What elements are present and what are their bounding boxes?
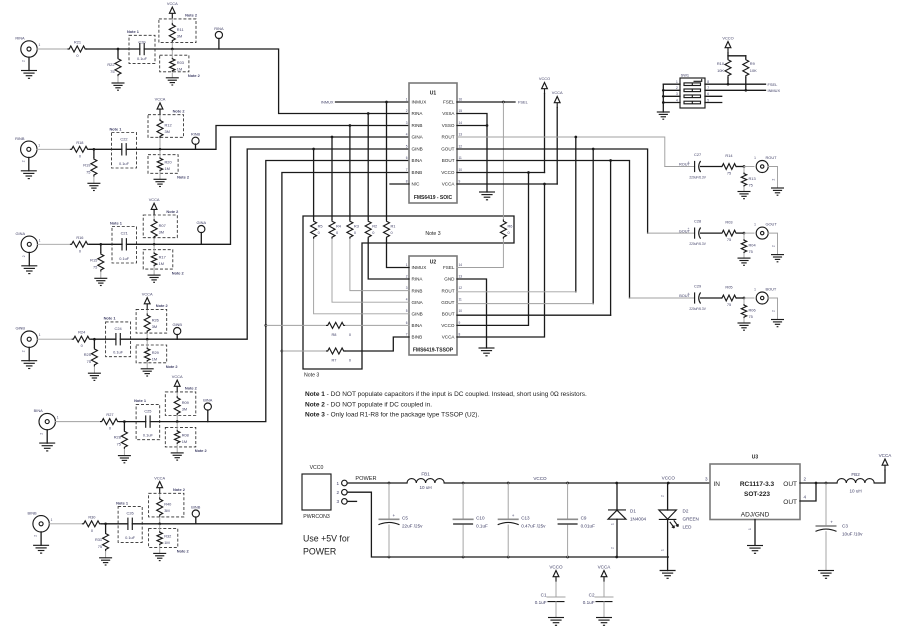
power symbol VCCA (U1) — [457, 90, 563, 184]
resistor R6 0 (FSEL to U2, Note 3) — [457, 102, 512, 268]
wire BNC to series resistor — [55, 421, 100, 423]
svg-text:N/C: N/C — [412, 182, 421, 187]
inductor FB2 10uH — [837, 472, 874, 494]
resistor R10 10K (FSEL pull-up) — [717, 58, 731, 86]
svg-text:VCCA: VCCA — [442, 335, 456, 340]
svg-text:3: 3 — [406, 121, 408, 125]
wire BNC to series resistor — [37, 48, 67, 50]
svg-text:R5: R5 — [318, 224, 323, 229]
net VCCO rail — [444, 476, 710, 485]
node junction — [93, 338, 96, 341]
svg-text:1: 1 — [754, 223, 756, 227]
ground (under R17) — [148, 275, 161, 282]
svg-text:R26: R26 — [152, 317, 159, 322]
stub SW1 pin6 — [705, 95, 722, 97]
resistor R13 75 (shunt) — [743, 167, 745, 173]
svg-text:R28: R28 — [114, 435, 121, 440]
svg-text:C26: C26 — [127, 511, 134, 516]
wire resistor to coupling cap — [101, 523, 128, 525]
svg-text:1: 1 — [39, 238, 41, 242]
svg-text:RINB: RINB — [191, 132, 201, 137]
svg-text:2: 2 — [406, 274, 408, 278]
svg-text:VCCO: VCCO — [662, 476, 676, 481]
pin 8 N/C stub — [390, 183, 409, 185]
wire BNC to series resistor — [38, 243, 70, 245]
svg-text:VCCA: VCCA — [154, 475, 165, 480]
ground (BNC shield) — [28, 57, 30, 70]
svg-text:3M: 3M — [164, 508, 169, 513]
op-amp U2 FMS6419-TSSOP — [406, 256, 463, 355]
capacitor C9 0.01uF — [557, 483, 595, 557]
svg-text:GOUT: GOUT — [441, 147, 454, 152]
svg-text:R15: R15 — [90, 257, 97, 262]
svg-text:ROUT: ROUT — [441, 135, 454, 140]
svg-text:VCCA: VCCA — [167, 1, 178, 6]
svg-text:C1: C1 — [541, 592, 547, 597]
svg-text:+: + — [688, 161, 690, 165]
node terminal RINA — [218, 38, 220, 49]
ground (BNC shield) — [28, 347, 30, 360]
svg-text:Note 1 - DO NOT populate capac: Note 1 - DO NOT populate capacitors if t… — [305, 391, 587, 398]
svg-text:RINB: RINB — [412, 288, 423, 293]
ground (under R15) — [94, 278, 107, 285]
ground (under R32) — [153, 553, 166, 560]
svg-text:VCCO: VCCO — [722, 36, 733, 41]
svg-text:VSSA: VSSA — [442, 111, 455, 116]
wire BNC to series resistor — [49, 523, 82, 525]
svg-text:3M: 3M — [182, 406, 187, 411]
svg-text:Note 2: Note 2 — [195, 448, 208, 453]
svg-text:10K: 10K — [717, 68, 724, 73]
svg-text:LED: LED — [683, 525, 693, 530]
svg-text:R4: R4 — [336, 224, 342, 229]
svg-text:Note 2: Note 2 — [156, 303, 169, 308]
input stage BINA — [34, 161, 409, 463]
svg-text:FSEL: FSEL — [768, 82, 779, 87]
svg-text:GINB: GINB — [15, 326, 25, 331]
svg-text:VCCA: VCCA — [879, 453, 893, 458]
svg-text:1M: 1M — [165, 166, 170, 171]
svg-text:75: 75 — [749, 314, 753, 319]
wire BINA to U1 — [150, 161, 409, 422]
wire U3 OUT pins — [800, 482, 837, 501]
svg-text:RC1117-3.3: RC1117-3.3 — [740, 481, 775, 488]
svg-text:R16: R16 — [76, 235, 83, 240]
svg-text:BINB: BINB — [191, 504, 200, 509]
resistor R2 0 (Note 3 link) — [365, 112, 409, 279]
ground (BNC shield) — [46, 430, 48, 443]
wire VCCO to U2 pin9 — [457, 171, 530, 325]
svg-text:1: 1 — [57, 416, 59, 420]
ground (under R04) — [738, 258, 751, 265]
capacitor C26 0.1uF (Note 1 dashed box) — [118, 507, 142, 543]
resistor R18 0 (series) — [70, 146, 89, 152]
svg-text:7: 7 — [707, 86, 709, 90]
input stage GINB — [15, 149, 409, 380]
svg-text:R22: R22 — [107, 62, 114, 67]
node terminal GINB — [176, 335, 178, 340]
resistor R20 1M (pull-down, Note 2 dashed box) — [148, 155, 178, 174]
svg-text:INMUX: INMUX — [768, 88, 781, 93]
svg-text:R10: R10 — [717, 61, 725, 66]
svg-text:Note 3: Note 3 — [425, 231, 440, 237]
svg-text:10 uH: 10 uH — [419, 485, 431, 490]
svg-text:R8: R8 — [332, 332, 337, 337]
svg-text:5: 5 — [707, 98, 709, 102]
svg-text:POWER: POWER — [303, 547, 336, 557]
svg-text:0.1uF: 0.1uF — [119, 256, 130, 261]
node junction — [117, 48, 120, 51]
svg-text:GINB: GINB — [412, 147, 423, 152]
svg-text:GINA: GINA — [197, 220, 207, 225]
wire U3 ADJ/GND to ground — [747, 520, 763, 554]
ground (BNC shield) — [768, 167, 777, 189]
ground (BNC shield) — [768, 298, 777, 320]
svg-text:75: 75 — [727, 171, 731, 176]
svg-text:Note 2: Note 2 — [185, 386, 198, 391]
svg-text:Note 1: Note 1 — [110, 220, 123, 225]
wire BNC to series resistor — [37, 338, 71, 340]
node junction — [123, 420, 126, 423]
power symbol VCCO (U1) — [457, 76, 550, 173]
svg-text:BOUT: BOUT — [442, 158, 455, 163]
svg-text:0.1uF: 0.1uF — [143, 433, 154, 438]
input stage RINA — [15, 1, 409, 114]
resistor R4 0 (Note 3 link) — [329, 136, 409, 303]
svg-text:12: 12 — [459, 286, 463, 290]
svg-text:75: 75 — [727, 302, 731, 307]
svg-text:INMUX: INMUX — [412, 265, 427, 270]
svg-text:RINA: RINA — [412, 277, 424, 282]
svg-text:VCCA: VCCA — [598, 565, 612, 570]
svg-text:3M: 3M — [177, 33, 182, 38]
svg-text:75: 75 — [727, 237, 731, 242]
svg-text:3: 3 — [676, 92, 678, 96]
svg-text:VCCA: VCCA — [149, 197, 160, 202]
capacitor C5 22uF /25v — [379, 483, 424, 557]
svg-text:BOUT: BOUT — [766, 287, 777, 292]
svg-text:RINB: RINB — [412, 123, 423, 128]
wire resistor to coupling cap — [89, 243, 122, 245]
svg-text:8: 8 — [459, 332, 461, 336]
output row ROUT — [665, 152, 784, 199]
svg-text:VSSO: VSSO — [442, 123, 455, 128]
svg-text:BINB: BINB — [412, 170, 423, 175]
svg-text:6: 6 — [406, 156, 408, 160]
svg-text:FB2: FB2 — [851, 472, 860, 477]
svg-text:OUT: OUT — [783, 481, 797, 488]
ground (under R13) — [738, 192, 751, 199]
net ROUT: U1 pin13 to output / U2 pin12 — [457, 136, 665, 292]
capacitor C1 0.1uF (VCCO bypass) — [535, 565, 565, 626]
svg-text:R31: R31 — [95, 537, 102, 542]
resistor R11 3M (pull-up, Note 2 dashed box) — [159, 19, 196, 43]
svg-text:1: 1 — [39, 43, 41, 47]
svg-text:Note 1: Note 1 — [104, 316, 117, 321]
svg-text:7: 7 — [406, 168, 408, 172]
svg-text:2: 2 — [40, 433, 44, 435]
resistor R27 0 (series) — [100, 419, 119, 425]
svg-text:VCCA: VCCA — [155, 97, 166, 102]
resistor R03 75 (series) — [721, 230, 737, 236]
svg-text:R3: R3 — [354, 224, 359, 229]
svg-text:2: 2 — [611, 547, 615, 549]
svg-text:GOUT: GOUT — [441, 300, 454, 305]
svg-text:R40: R40 — [164, 501, 172, 506]
svg-text:0.1uF: 0.1uF — [113, 350, 124, 355]
wire U2 GND to ground — [457, 279, 495, 356]
resistor R12 3M (pull-up, Note 2 dashed box) — [148, 115, 184, 138]
svg-text:14: 14 — [459, 263, 463, 267]
svg-text:75: 75 — [749, 249, 753, 254]
svg-text:75: 75 — [117, 442, 121, 447]
wire BINB to U1 — [132, 173, 409, 524]
svg-text:2: 2 — [22, 255, 26, 257]
svg-text:0.1uF: 0.1uF — [535, 600, 547, 605]
resistor R05 75 (series) — [721, 295, 737, 301]
svg-text:9: 9 — [459, 321, 461, 325]
svg-text:C24: C24 — [115, 326, 123, 331]
svg-text:11: 11 — [459, 298, 463, 302]
connector PWRCON3 — [302, 465, 347, 520]
resistor R26 3M (pull-up, Note 2 dashed box) — [136, 309, 167, 333]
svg-text:1M: 1M — [177, 67, 182, 72]
resistor R16 0 (series) — [70, 241, 89, 247]
ground (SW1) — [657, 112, 670, 119]
svg-text:2: 2 — [676, 86, 678, 90]
svg-text:GINB: GINB — [172, 322, 182, 327]
svg-text:R25: R25 — [84, 352, 91, 357]
svg-text:BINA: BINA — [34, 408, 43, 413]
svg-text:10K: 10K — [750, 68, 757, 73]
svg-text:2: 2 — [772, 179, 776, 181]
svg-text:0.1uF: 0.1uF — [125, 535, 136, 540]
svg-text:0.1uF: 0.1uF — [583, 600, 595, 605]
wire SW1 pin8 FSEL — [705, 83, 766, 85]
svg-text:1: 1 — [406, 97, 408, 101]
svg-text:220uF/6.3V: 220uF/6.3V — [689, 307, 706, 311]
svg-text:Note 2: Note 2 — [177, 175, 190, 180]
resistor R21 0 (series) — [68, 46, 87, 52]
wire GINA to U1 — [127, 137, 410, 244]
capacitor C22 0.1uF (Note 1 dashed box) — [112, 133, 137, 169]
svg-text:Note 2: Note 2 — [177, 549, 190, 554]
svg-text:1: 1 — [611, 523, 615, 525]
capacitor C20 0.1uF (Note 1 dashed box) — [129, 35, 155, 63]
resistor R15 75 (input termination) — [100, 244, 102, 252]
resistor R1 0 (Note 3 link) — [384, 101, 410, 268]
svg-text:15: 15 — [459, 109, 463, 113]
svg-text:Note 2: Note 2 — [166, 209, 179, 214]
node terminal BINA — [207, 410, 209, 422]
svg-text:C21: C21 — [121, 231, 128, 236]
svg-text:GND: GND — [444, 277, 455, 282]
svg-text:BINB: BINB — [412, 335, 423, 340]
net POWER wire — [347, 476, 407, 484]
svg-text:1: 1 — [661, 549, 665, 551]
svg-text:RINB: RINB — [15, 136, 25, 141]
svg-text:10: 10 — [459, 309, 463, 313]
svg-text:2: 2 — [772, 245, 776, 247]
power symbol VCCO (SW1 pull-ups) — [722, 36, 745, 59]
svg-text:3M: 3M — [165, 129, 170, 134]
svg-text:75: 75 — [87, 359, 91, 364]
ground (BNC shield) — [768, 233, 777, 255]
svg-text:ADJ/GND: ADJ/GND — [741, 512, 770, 519]
ground (C3) — [818, 571, 834, 579]
svg-text:0.1uF: 0.1uF — [119, 161, 130, 166]
svg-text:BINB: BINB — [28, 510, 37, 515]
svg-text:R24: R24 — [78, 330, 86, 335]
capacitor C13 0.47uF /25v — [498, 483, 546, 557]
resistor R08 1M (pull-down, Note 2 dashed box) — [165, 427, 196, 447]
svg-text:R2: R2 — [372, 224, 377, 229]
svg-text:C28: C28 — [694, 219, 701, 224]
svg-text:R9: R9 — [750, 61, 755, 66]
svg-text:C22: C22 — [120, 137, 127, 142]
svg-text:+: + — [830, 520, 833, 525]
svg-text:Note 2: Note 2 — [173, 109, 186, 114]
svg-text:8: 8 — [406, 179, 408, 183]
ground (under R06) — [738, 323, 751, 330]
svg-text:VCCO: VCCO — [539, 76, 550, 81]
svg-text:1: 1 — [754, 156, 756, 160]
svg-text:4: 4 — [676, 98, 678, 102]
svg-text:GREEN: GREEN — [683, 517, 699, 522]
svg-text:VCC0: VCC0 — [310, 465, 324, 471]
input stage BINB — [28, 173, 409, 566]
svg-text:R04: R04 — [749, 243, 757, 248]
svg-text:R6: R6 — [508, 224, 513, 229]
svg-text:220uF/6.3V: 220uF/6.3V — [689, 176, 706, 180]
output row BOUT — [630, 284, 785, 331]
svg-text:R05: R05 — [725, 285, 732, 290]
svg-text:1: 1 — [676, 80, 678, 84]
svg-text:VCCO: VCCO — [441, 170, 455, 175]
svg-text:2: 2 — [22, 350, 26, 352]
svg-text:R03: R03 — [725, 220, 732, 225]
svg-text:BOUT: BOUT — [442, 312, 455, 317]
svg-text:Note 2: Note 2 — [173, 487, 186, 492]
regulator U3 RC1117-3.3 SOT-223 — [705, 455, 807, 520]
svg-text:ROUT: ROUT — [441, 288, 454, 293]
node terminal BINB — [195, 517, 197, 524]
svg-text:VCCA: VCCA — [172, 374, 183, 379]
svg-text:75: 75 — [86, 169, 90, 174]
svg-text:R17: R17 — [159, 255, 166, 260]
wire SW1 pin7 INMUX — [705, 89, 766, 91]
svg-text:FSEL: FSEL — [443, 265, 455, 270]
capacitor C25 0.1uF (Note 1 dashed box) — [136, 404, 160, 439]
inductor FB1 10uH — [407, 472, 444, 491]
stub SW1 pin5 — [705, 102, 722, 104]
svg-text:16: 16 — [459, 97, 463, 101]
ground (BNC shield) — [28, 253, 30, 266]
svg-text:0.1uF: 0.1uF — [476, 523, 488, 528]
svg-text:R19: R19 — [83, 162, 90, 167]
wire VSSA/VSSO to ground — [457, 114, 495, 200]
stub PWRCON pin3 — [347, 500, 356, 502]
resistor R24 0 (series) — [72, 336, 91, 342]
node junction — [104, 522, 107, 525]
svg-text:Note 2: Note 2 — [172, 270, 185, 275]
svg-text:Note 2 - DO NOT populate if DC: Note 2 - DO NOT populate if DC coupled i… — [305, 401, 432, 408]
svg-text:R08: R08 — [182, 432, 189, 437]
svg-text:R27: R27 — [106, 412, 113, 417]
svg-text:+: + — [688, 292, 690, 296]
svg-text:6: 6 — [707, 92, 709, 96]
resistor R32 1M (pull-down, Note 2 dashed box) — [149, 529, 178, 548]
svg-text:Note 3 - Only load R1-R8 for t: Note 3 - Only load R1-R8 for the package… — [305, 412, 479, 419]
svg-text:75: 75 — [110, 69, 114, 74]
svg-text:VCCA: VCCA — [442, 182, 456, 187]
ground (under R03) — [166, 78, 179, 85]
resistor R3 0 (Note 3 link) — [347, 124, 409, 290]
svg-text:1M: 1M — [164, 540, 169, 545]
svg-text:VCCA: VCCA — [142, 291, 153, 296]
svg-text:3: 3 — [406, 286, 408, 290]
net FSEL from U1 pin16 — [457, 100, 529, 105]
node terminal RINB — [195, 144, 197, 149]
node terminal GINA — [200, 233, 202, 245]
svg-text:R07: R07 — [159, 223, 166, 228]
LED D2 GREEN — [659, 483, 699, 578]
svg-text:RINA: RINA — [15, 36, 25, 41]
svg-text:INMUX: INMUX — [412, 100, 427, 105]
svg-text:0.47uF /25v: 0.47uF /25v — [521, 523, 546, 528]
svg-text:2: 2 — [336, 490, 339, 495]
ground (under R29) — [141, 369, 154, 376]
svg-text:0.01uF: 0.01uF — [581, 523, 595, 528]
svg-text:U3: U3 — [752, 455, 759, 461]
svg-text:Note 2: Note 2 — [185, 13, 198, 18]
svg-text:Note 1: Note 1 — [127, 29, 140, 34]
ground (under R31) — [99, 558, 112, 565]
svg-text:Note 1: Note 1 — [110, 126, 123, 131]
svg-text:IN: IN — [714, 481, 721, 488]
note texts — [305, 391, 587, 419]
svg-text:2: 2 — [34, 535, 38, 537]
svg-text:VCCO: VCCO — [441, 323, 455, 328]
svg-text:R29: R29 — [152, 350, 159, 355]
resistor R9 10K (INMUX pull-up) — [743, 56, 757, 92]
svg-text:C5: C5 — [402, 516, 408, 521]
svg-text:8: 8 — [707, 80, 709, 84]
ground (U3) — [747, 546, 763, 554]
jumper header SW1 — [657, 72, 781, 119]
resistor R07 3M (pull-up, Note 2 dashed box) — [143, 215, 177, 238]
svg-text:R30: R30 — [88, 514, 96, 519]
input stage RINB — [15, 97, 409, 191]
wire GINB to U1 — [120, 149, 409, 339]
capacitor C21 0.1uF (Note 1 dashed box) — [112, 227, 137, 264]
svg-text:1: 1 — [748, 528, 752, 530]
svg-text:FMS6419-TSSOP: FMS6419-TSSOP — [413, 348, 454, 354]
wire BNC to series resistor — [37, 148, 70, 150]
node junction — [99, 243, 102, 246]
svg-text:VCCA: VCCA — [552, 90, 563, 95]
svg-text:C29: C29 — [694, 284, 701, 289]
resistor R5 0 (Note 3 link) — [311, 148, 409, 314]
ground (U1 VSS) — [479, 192, 495, 200]
net GOUT: U1 pin12 to output / U2 pin11 — [457, 148, 648, 304]
resistor R8 0 (BINA to U2) — [266, 322, 409, 337]
svg-text:R11: R11 — [177, 27, 184, 32]
text Use +5V for POWER — [303, 534, 350, 557]
svg-text:ROUT: ROUT — [766, 155, 778, 160]
svg-text:GINA: GINA — [16, 231, 26, 236]
svg-text:9: 9 — [459, 179, 461, 183]
